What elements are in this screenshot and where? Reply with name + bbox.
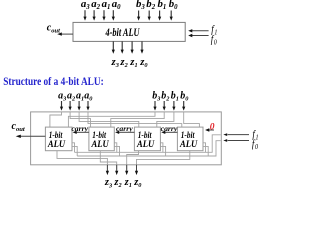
svg-text:ALU: ALU	[91, 139, 110, 150]
svg-text:Structure of a 4-bit ALU:: Structure of a 4-bit ALU:	[3, 75, 104, 88]
svg-text:0: 0	[210, 122, 215, 132]
svg-text:ALU: ALU	[179, 139, 198, 150]
svg-text:ALU: ALU	[136, 139, 155, 150]
svg-text:4-bit ALU: 4-bit ALU	[105, 27, 140, 39]
svg-text:ALU: ALU	[47, 139, 66, 150]
